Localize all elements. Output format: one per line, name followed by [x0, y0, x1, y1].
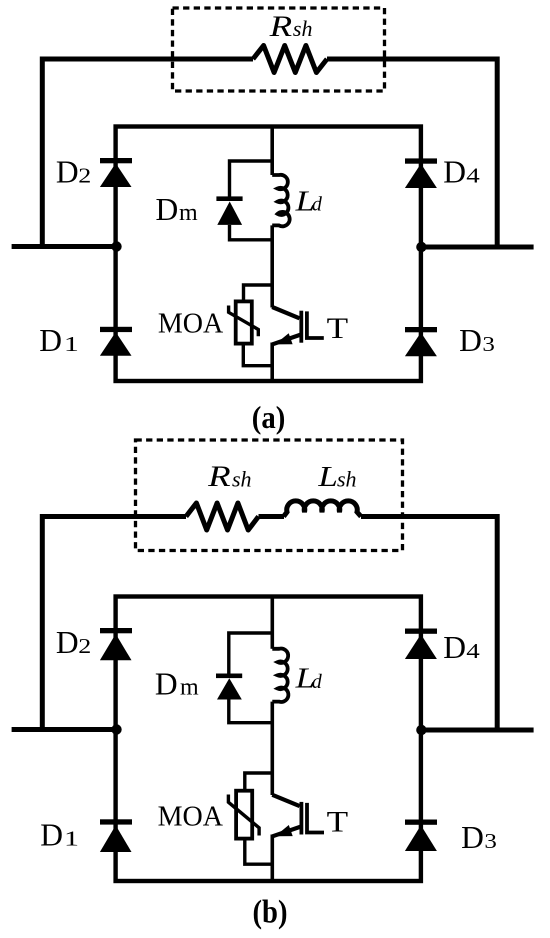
wire: Dm branch bottom (a) — [230, 225, 273, 240]
varistor MOA body (b) — [236, 791, 252, 839]
transistor T emitter lead (b) — [273, 827, 302, 837]
varistor MOA body (a) — [236, 301, 252, 343]
inductor Lsh (b) — [284, 501, 361, 517]
transistor T body bar (b) — [299, 802, 303, 835]
wire: Dm branch top (a) — [230, 161, 273, 197]
node: right junction dot (a) — [416, 242, 426, 252]
wire: right AC terminal (a) — [421, 245, 534, 250]
wire: left AC terminal (b) — [12, 727, 118, 732]
transistor T emitter lead (a) — [273, 335, 302, 345]
wire: MOA branch top (b) — [245, 773, 272, 791]
diode D4 (b) — [405, 629, 437, 660]
svg-text:4: 4 — [466, 163, 480, 187]
svg-text:sh: sh — [337, 467, 357, 492]
diode D3 (a) — [405, 327, 437, 356]
svg-text:D: D — [459, 323, 482, 358]
svg-text:3: 3 — [482, 332, 495, 356]
transistor T emitter arrow (b) — [275, 825, 293, 836]
diode Dm (a) — [216, 196, 242, 225]
svg-text:2: 2 — [78, 634, 91, 658]
wire: center column mid segment (b) — [270, 702, 274, 795]
svg-text:D: D — [39, 323, 62, 358]
wire: top loop mid segment between Rsh and Lsh (b) — [259, 514, 285, 519]
svg-text:2: 2 — [78, 163, 91, 187]
node: left junction dot (b) — [111, 724, 121, 734]
wire: Dm branch bottom (b) — [229, 700, 272, 723]
wire: center column mid segment (a) — [270, 225, 274, 307]
svg-text:MOA: MOA — [158, 801, 224, 832]
svg-text:m: m — [180, 675, 199, 701]
transistor T gate bar and lead (a) — [307, 311, 324, 338]
dashed box around Rsh and Lsh (b) — [136, 440, 403, 551]
svg-text:(a): (a) — [252, 399, 285, 435]
svg-text:D: D — [461, 820, 484, 855]
resistor Rsh (b) — [186, 503, 259, 530]
svg-text:R: R — [268, 10, 292, 43]
svg-text:D: D — [443, 630, 466, 665]
inductor Ld (a) — [272, 175, 289, 226]
svg-text:T: T — [327, 806, 349, 838]
transistor T collector lead (a) — [272, 307, 299, 318]
diode D2 (b) — [100, 628, 132, 660]
svg-text:T: T — [327, 313, 349, 345]
wire: center column upper segment (a) — [270, 127, 274, 176]
svg-text:D: D — [56, 625, 79, 660]
svg-text:MOA: MOA — [158, 309, 224, 340]
svg-text:3: 3 — [484, 829, 497, 853]
diode D1 (b) — [100, 819, 132, 852]
wire: center column lower segment (a) — [270, 343, 274, 382]
wire: bridge rectangle frame (b) — [116, 597, 421, 882]
diode D4 (a) — [405, 158, 437, 188]
svg-text:sh: sh — [293, 16, 313, 41]
diode D1 (a) — [100, 327, 132, 356]
svg-text:1: 1 — [64, 826, 79, 850]
svg-text:R: R — [207, 460, 231, 493]
svg-text:d: d — [312, 194, 323, 216]
wire: MOA branch top (a) — [244, 285, 273, 301]
wire: top loop left segment with far-left vertical (a) — [42, 59, 253, 247]
transistor T collector lead (b) — [272, 795, 299, 806]
wire: right AC terminal (b) — [421, 728, 534, 733]
resistor Rsh (a) — [253, 46, 327, 73]
node: left junction dot (a) — [111, 241, 121, 251]
transistor T gate bar and lead (b) — [307, 803, 324, 833]
varistor MOA diagonal (b) — [228, 795, 259, 836]
transistor T body bar (a) — [299, 311, 303, 343]
inductor Ld (b) — [272, 649, 288, 702]
svg-text:D: D — [443, 154, 466, 189]
wire: MOA branch bottom (a) — [243, 344, 272, 366]
wire: top loop left segment with far-left vertical (b) — [42, 517, 186, 730]
dashed box around Rsh (a) — [173, 8, 385, 91]
transistor T emitter arrow (a) — [275, 333, 293, 344]
wire: left AC terminal (a) — [12, 244, 118, 249]
svg-text:D: D — [155, 667, 178, 702]
svg-text:D: D — [56, 154, 79, 189]
svg-text:4: 4 — [466, 639, 480, 663]
diode Dm (b) — [216, 674, 242, 700]
wire: bridge rectangle frame (a) — [116, 127, 421, 382]
wire: top loop right segment with far-right vertical (a) — [327, 59, 497, 247]
wire: center column upper segment (b) — [270, 597, 274, 649]
diode D3 (b) — [405, 820, 437, 852]
diode D2 (a) — [100, 158, 132, 187]
svg-text:d: d — [312, 671, 323, 693]
svg-text:m: m — [179, 200, 198, 226]
svg-text:D: D — [40, 817, 63, 852]
varistor MOA diagonal (a) — [229, 306, 259, 337]
wire: Dm branch top (b) — [229, 633, 272, 674]
svg-text:1: 1 — [64, 332, 79, 356]
wire: MOA branch bottom (b) — [245, 839, 273, 865]
svg-text:sh: sh — [232, 467, 252, 492]
wire: center column lower segment (b) — [270, 835, 274, 882]
svg-text:D: D — [156, 192, 179, 227]
wire: top loop right segment with far-right vertical (b) — [361, 517, 497, 731]
svg-text:(b): (b) — [253, 895, 288, 931]
node: right junction dot (b) — [416, 725, 426, 735]
svg-text:L: L — [317, 461, 338, 493]
